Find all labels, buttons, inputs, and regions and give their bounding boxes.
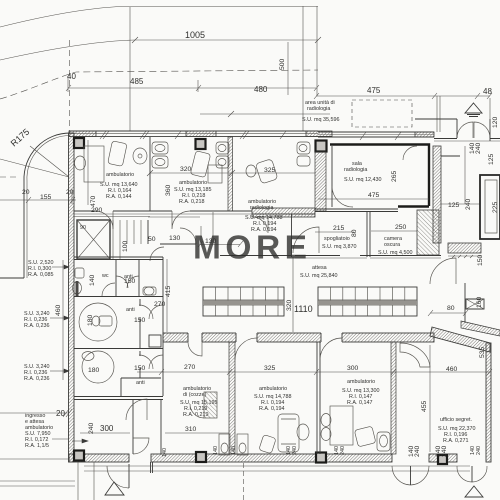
svg-text:MORE: MORE: [193, 230, 312, 267]
svg-text:S.U. mq 35,596: S.U. mq 35,596: [302, 117, 339, 123]
roomC sink: [377, 432, 390, 451]
door arc row3: [139, 355, 153, 369]
door bottom right 2 double: [457, 466, 472, 482]
R175 corner arc: [24, 133, 70, 181]
diagonal wall corridor end: [430, 327, 490, 352]
aux dim line mid: [200, 113, 330, 115]
toilet row1: [73, 282, 82, 294]
dim 325: [232, 172, 315, 174]
svg-text:320: 320: [286, 299, 293, 311]
svg-text:150: 150: [134, 365, 146, 372]
svg-text:S.U. mq 25,840: S.U. mq 25,840: [300, 273, 337, 279]
svg-text:di (cozze): di (cozze): [183, 392, 207, 398]
room2 basins: [152, 142, 168, 154]
svg-text:500: 500: [279, 58, 286, 70]
hall door arc: [180, 228, 196, 244]
svg-text:140: 140: [162, 448, 168, 457]
entrance bottom arrow: [105, 482, 124, 495]
kerb lines bottom left: [0, 481, 75, 486]
svg-text:anti: anti: [126, 307, 135, 313]
wall room3/sala: [315, 152, 326, 211]
right mid hatched wall: [448, 243, 481, 253]
wc block top wall: [74, 257, 163, 260]
left wall band: [69, 133, 75, 462]
svg-text:415: 415: [165, 285, 172, 297]
section dashed line bottom centre: [243, 463, 245, 500]
svg-text:ambulatorio: ambulatorio: [259, 386, 287, 392]
svg-text:225: 225: [492, 201, 499, 213]
reception hatched wall: [252, 208, 315, 217]
svg-text:215: 215: [333, 225, 345, 232]
svg-text:120: 120: [492, 116, 499, 128]
pillar bottom4: [438, 455, 447, 464]
svg-text:155: 155: [40, 194, 52, 201]
roomC desk: [330, 406, 353, 445]
room3 couch: [255, 159, 278, 184]
room2 basins right: [216, 142, 229, 154]
svg-text:270: 270: [184, 364, 196, 371]
svg-text:320: 320: [180, 166, 192, 173]
door arc hall room3: [252, 217, 268, 233]
svg-text:265: 265: [391, 170, 398, 182]
svg-text:250: 250: [395, 224, 407, 231]
svg-text:240: 240: [292, 446, 298, 455]
svg-text:300: 300: [100, 424, 114, 433]
svg-text:140: 140: [213, 446, 219, 455]
svg-text:460: 460: [55, 304, 62, 316]
room3 basin: [297, 142, 310, 154]
svg-text:125: 125: [448, 202, 460, 209]
room2 couch: [190, 151, 210, 178]
hall wall under top rooms: [74, 211, 315, 214]
duct dark: [76, 281, 79, 296]
roomA door arc: [188, 342, 202, 356]
svg-text:240: 240: [441, 445, 448, 457]
svg-text:R.A. 0,218: R.A. 0,218: [179, 199, 204, 205]
entrance top wall: [434, 138, 500, 140]
top wall band: [69, 131, 318, 136]
dimension 20 155 20 line: [0, 199, 76, 201]
svg-text:300: 300: [347, 365, 359, 372]
ingresso door arcs: [126, 399, 147, 420]
wall roomA/roomB: [229, 342, 235, 454]
svg-text:20: 20: [22, 189, 30, 196]
wc disabled circle row3: [82, 351, 114, 383]
svg-text:130: 130: [169, 235, 181, 242]
shaft square row2: [149, 335, 161, 347]
room1 couch: [108, 141, 127, 167]
left outside text ingresso: [0, 412, 69, 414]
wall room2/room3: [228, 137, 233, 211]
svg-text:140: 140: [89, 274, 96, 286]
svg-text:160: 160: [476, 296, 483, 308]
bottom wall band: [69, 454, 129, 462]
dashed area rectangle: [352, 100, 412, 127]
svg-text:spogliatoio: spogliatoio: [324, 236, 350, 242]
svg-text:R.A. 0,147: R.A. 0,147: [347, 400, 372, 406]
road curve outer: [0, 7, 318, 28]
svg-text:150: 150: [134, 317, 146, 324]
boundary dashed vertical at x69: [69, 40, 71, 133]
svg-text:ambulatorio: ambulatorio: [179, 180, 207, 186]
svg-text:R.A. 0,236: R.A. 0,236: [24, 323, 49, 329]
svg-text:radiologia: radiologia: [250, 205, 273, 211]
corner columns top right: [437, 96, 490, 132]
toilet row2: [99, 316, 112, 326]
svg-text:360: 360: [165, 184, 172, 196]
svg-text:290: 290: [91, 207, 103, 214]
svg-text:325: 325: [264, 365, 276, 372]
svg-text:anti: anti: [136, 380, 145, 386]
svg-text:485: 485: [130, 77, 144, 86]
svg-text:R.A. 0,085: R.A. 0,085: [28, 272, 53, 278]
grid vertical lines top right: [302, 6, 304, 131]
wall roomB/roomC: [317, 342, 320, 454]
svg-text:R175: R175: [9, 127, 32, 149]
svg-text:R.A. 1,1/5: R.A. 1,1/5: [25, 443, 49, 449]
door arc stairs landing: [150, 247, 164, 261]
svg-text:40: 40: [67, 72, 76, 81]
pillar bottom2: [196, 452, 206, 462]
svg-text:475: 475: [368, 192, 380, 199]
entrance top arrow: [465, 103, 482, 113]
road curve 2 / dimension line 1005: [0, 40, 318, 60]
right thick room: [480, 175, 500, 239]
roomB door arc: [235, 338, 257, 360]
tick 1005 right: [315, 37, 321, 43]
svg-text:S.U. mq 3,870: S.U. mq 3,870: [322, 244, 356, 250]
svg-text:270: 270: [154, 301, 166, 308]
pillar top2: [196, 139, 206, 149]
door arc to attesa: [293, 227, 319, 253]
corridor top right walls: [441, 155, 460, 157]
kerb horizontal: [0, 277, 24, 279]
radiology right wall band: [433, 146, 441, 243]
svg-text:470: 470: [90, 195, 97, 207]
road dashed centerline: [0, 70, 318, 99]
entrance top right doors: [457, 122, 473, 138]
spogliatoio room: [367, 212, 370, 258]
dimension 475 line: [316, 95, 490, 97]
wc row divider: [74, 296, 163, 298]
svg-text:240: 240: [475, 142, 482, 154]
roomB chair: [259, 435, 276, 454]
svg-text:455: 455: [421, 400, 428, 412]
bench left: [203, 287, 284, 316]
pillar top1: [74, 138, 84, 148]
svg-text:radiologia: radiologia: [307, 106, 330, 112]
svg-text:240: 240: [88, 422, 95, 434]
wc block bottom wall: [74, 397, 163, 400]
door arc right mid: [430, 258, 456, 284]
elevator shaft: [77, 220, 110, 259]
svg-text:20: 20: [56, 409, 65, 418]
svg-text:240: 240: [340, 446, 346, 455]
wall roomC/roomD: [391, 342, 396, 454]
corridor bottom wall band: [163, 333, 434, 342]
roomA sink table: [219, 434, 230, 455]
pillar top3: [316, 141, 327, 152]
room2 desk: [208, 165, 222, 183]
svg-text:140: 140: [231, 446, 237, 455]
right wall band: [486, 343, 491, 462]
roomA desk hatched: [204, 392, 217, 418]
pillar bottom1: [74, 451, 84, 461]
sink anti1: [144, 287, 154, 295]
wall right mid vertical: [464, 283, 466, 323]
svg-text:180: 180: [87, 314, 94, 326]
grid vertical line x130: [129, 7, 131, 131]
door arc wc1: [102, 283, 115, 296]
pavement lines bottom: [84, 465, 470, 467]
svg-text:R.A. 0,144: R.A. 0,144: [106, 194, 131, 200]
svg-text:ambulatorio: ambulatorio: [347, 379, 375, 385]
roomC small table: [354, 426, 376, 447]
svg-text:310: 310: [185, 426, 197, 433]
right corner hatched stub: [461, 321, 500, 336]
roomD curved desk: [400, 343, 430, 367]
svg-text:R.A. 0,194: R.A. 0,194: [259, 406, 284, 412]
middle band bottom wall: [220, 255, 441, 257]
X shaft small: [466, 299, 484, 309]
door arc room1: [95, 211, 113, 229]
toilet row3: [82, 352, 94, 361]
svg-text:1110: 1110: [294, 304, 313, 314]
door arc room2: [172, 211, 190, 229]
wc row2 divider: [74, 348, 163, 350]
svg-text:240: 240: [414, 445, 421, 457]
door bottom right 1 double: [392, 466, 411, 485]
svg-text:R.A. 0,236: R.A. 0,236: [24, 376, 49, 382]
pillar bottom3: [316, 453, 326, 463]
door arc row2: [139, 305, 153, 319]
hall partition lines: [201, 212, 213, 244]
svg-text:535: 535: [479, 346, 486, 358]
wc row2 divider wall: [139, 299, 141, 378]
door arcs row1: [116, 276, 128, 288]
svg-text:attesa: attesa: [312, 265, 327, 271]
wc block inner verticals: [116, 257, 163, 396]
svg-text:240: 240: [476, 446, 482, 455]
roomB couch: [278, 414, 299, 452]
svg-text:ambulatorio: ambulatorio: [106, 172, 134, 178]
sala door arc: [332, 186, 353, 207]
svg-text:1005: 1005: [185, 30, 205, 40]
svg-text:S.U. mq 12,430: S.U. mq 12,430: [344, 177, 381, 183]
svg-text:radiologia: radiologia: [344, 167, 367, 173]
svg-text:480: 480: [254, 85, 268, 94]
room3 chair: [246, 165, 256, 177]
stair wall: [110, 220, 148, 259]
svg-text:325: 325: [264, 167, 276, 174]
svg-text:125: 125: [488, 153, 495, 165]
dim 475 sala: [318, 198, 429, 200]
svg-text:180: 180: [88, 367, 100, 374]
bench right: [318, 287, 417, 316]
wc disabled circle row2: [79, 303, 117, 341]
svg-text:150: 150: [477, 254, 484, 266]
svg-text:50: 50: [148, 236, 156, 243]
corridor centre line: [292, 257, 294, 332]
svg-text:ufficio segret.: ufficio segret.: [440, 417, 472, 423]
svg-text:80: 80: [447, 305, 455, 312]
sala radiologia dark lining: [330, 145, 429, 207]
svg-text:48: 48: [483, 87, 492, 96]
dim 320 rooms: [150, 172, 232, 174]
roomC door arc: [320, 338, 342, 360]
kerb vertical double line: [23, 181, 25, 278]
stair lines: [113, 220, 141, 259]
svg-text:90: 90: [80, 225, 86, 231]
wall anti/roomA: [133, 399, 161, 454]
room1 stool: [133, 148, 147, 164]
svg-text:wc: wc: [101, 273, 109, 279]
wall mid vertical: [291, 214, 293, 257]
room1 desk: [84, 146, 104, 182]
svg-text:100: 100: [122, 240, 129, 252]
roomB sink table: [237, 434, 248, 455]
entrance bottom left door: [107, 466, 129, 488]
sala radiologia walls: [315, 146, 398, 212]
svg-text:80: 80: [351, 229, 358, 237]
landing walls: [160, 243, 196, 245]
leader line to corner: [0, 159, 69, 177]
shaft diagonal hatch: [417, 210, 439, 255]
tick 1005 left: [132, 37, 138, 43]
wall room1/room2: [149, 137, 151, 211]
svg-text:oscura: oscura: [384, 242, 400, 248]
svg-text:475: 475: [367, 86, 381, 95]
arrow bottom right: [465, 486, 483, 497]
svg-text:R.A. 0,271: R.A. 0,271: [443, 438, 468, 444]
steps bottom left outside: [78, 462, 94, 500]
